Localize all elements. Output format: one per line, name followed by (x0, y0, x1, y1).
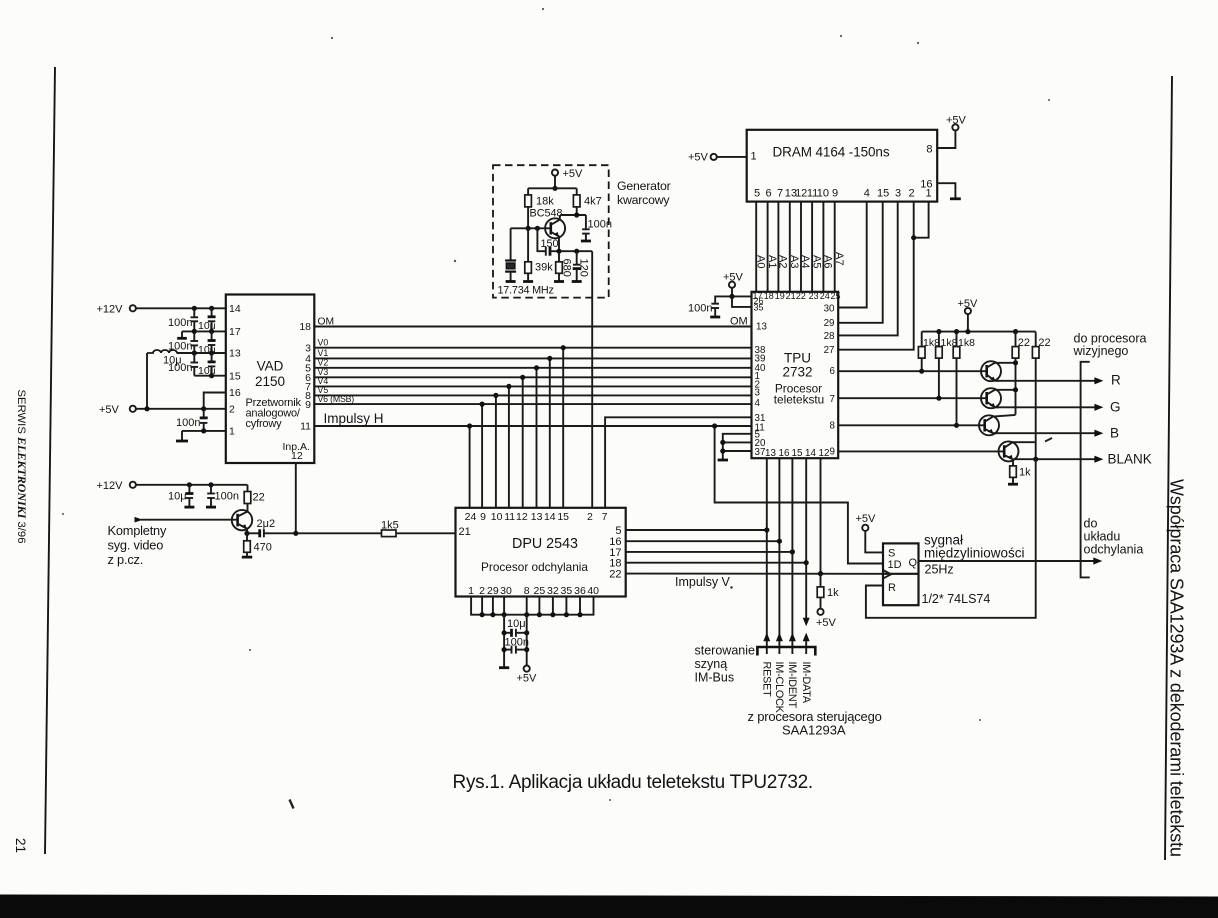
wire VAD pin15 (194, 375, 226, 377)
svg-text:24: 24 (820, 291, 830, 301)
svg-text:DPU 2543: DPU 2543 (512, 536, 578, 552)
resistor R12 22 (1032, 332, 1039, 460)
svg-text:18k: 18k (536, 196, 554, 208)
svg-text:35: 35 (561, 585, 573, 597)
svg-text:5: 5 (754, 188, 760, 200)
wire emitter to C10 (247, 532, 259, 534)
svg-text:3: 3 (895, 188, 901, 200)
svg-text:9: 9 (830, 447, 835, 458)
node dot (804, 560, 809, 565)
wire collector node (560, 214, 586, 216)
svg-text:2: 2 (908, 188, 914, 200)
node dot (493, 393, 498, 398)
+5V terminal T11 (862, 525, 868, 531)
node dot (1013, 360, 1018, 365)
svg-text:15: 15 (229, 371, 241, 383)
wire IM-DATA lower (805, 641, 807, 655)
IM-Bus bracket (757, 647, 815, 656)
wire +5V to DRAM pin1 (717, 156, 747, 158)
svg-text:2150: 2150 (255, 374, 285, 389)
svg-text:TPU: TPU (784, 351, 811, 366)
wire address A2 (777, 202, 779, 292)
left page rule (45, 67, 55, 854)
svg-text:B: B (1110, 426, 1119, 441)
output group bracket (1081, 362, 1090, 578)
wire supply rail (528, 187, 577, 189)
svg-text:V0: V0 (318, 338, 329, 348)
wire V6 (314, 403, 751, 405)
svg-text:+5V: +5V (958, 298, 979, 310)
svg-text:22: 22 (1038, 337, 1050, 349)
+5V terminal T8 (965, 308, 971, 314)
svg-text:36: 36 (574, 585, 586, 597)
wire VAD pin16 to pin2 join (204, 393, 226, 409)
svg-text:syg. video: syg. video (108, 538, 164, 553)
wire base line (511, 227, 551, 229)
node dot (720, 448, 725, 453)
node dot (192, 329, 197, 334)
svg-text:100n: 100n (215, 491, 239, 503)
svg-text:6: 6 (765, 188, 771, 200)
wire R3 to DPU pin21 (396, 532, 456, 534)
svg-text:13: 13 (756, 322, 767, 333)
wire DPU5 (626, 529, 767, 531)
svg-text:Rys.1. Aplikacja układu telete: Rys.1. Aplikacja układu teletekstu TPU27… (453, 772, 813, 793)
svg-text:6: 6 (830, 366, 836, 377)
node dot (911, 235, 916, 240)
svg-text:100n: 100n (176, 417, 200, 429)
svg-text:22: 22 (1018, 337, 1030, 349)
clock chevron (883, 570, 891, 579)
+5V terminal T6 (952, 124, 958, 130)
wire VAD pin1 (182, 430, 226, 432)
capacitor C8 10u (184, 485, 194, 507)
wire DPU10 riser (495, 395, 497, 507)
IC U4 DPU 2543 box (456, 508, 626, 597)
wire +5V down (554, 176, 556, 189)
svg-text:VAD: VAD (257, 359, 284, 374)
node dot (729, 294, 734, 299)
svg-text:11: 11 (300, 421, 311, 433)
svg-text:28: 28 (824, 331, 835, 342)
svg-text:do: do (1084, 517, 1098, 531)
svg-text:R: R (888, 582, 896, 594)
wire VAD pin13 (177, 352, 226, 354)
wire +5V to VAD pin2 (136, 408, 226, 410)
capacitor C7 100n (200, 409, 208, 431)
capacitor C13 120 (572, 251, 582, 281)
wire L1 to +5V rail riser (146, 353, 148, 409)
node dot (520, 375, 525, 380)
svg-text:IM-Bus: IM-Bus (695, 671, 735, 685)
wire DPU bottom pins to bus (471, 597, 593, 615)
wire DPU16 (626, 540, 780, 542)
node dot (1013, 329, 1018, 334)
svg-text:IM-IDENT: IM-IDENT (786, 662, 798, 709)
node dot (490, 612, 495, 617)
svg-text:A3: A3 (788, 255, 800, 268)
wire TPU6 to R base (838, 370, 987, 372)
svg-text:8: 8 (926, 144, 932, 156)
svg-text:15: 15 (877, 188, 889, 200)
wire V2 (314, 367, 751, 369)
svg-text:21: 21 (459, 526, 471, 538)
svg-text:7: 7 (602, 511, 608, 523)
svg-text:+5V: +5V (688, 152, 709, 164)
svg-text:100n: 100n (588, 219, 612, 231)
svg-text:15: 15 (557, 511, 569, 523)
wire DPU24 riser (469, 426, 471, 508)
resistor R10 1k8 (953, 332, 960, 426)
svg-text:22: 22 (253, 492, 265, 504)
bottom black bar (0, 895, 1218, 918)
wire +5V to S input (865, 531, 883, 553)
flip-flop divider (883, 573, 919, 575)
wire DRAM pin8 to +5V (937, 131, 955, 149)
svg-text:7: 7 (777, 188, 783, 200)
svg-text:100n: 100n (688, 303, 712, 315)
node dot (467, 423, 472, 428)
svg-text:680: 680 (561, 259, 573, 277)
svg-text:odchylania: odchylania (1084, 543, 1144, 557)
wire DPU11 riser (508, 386, 510, 507)
flip-flop U5 74LS74 box (883, 543, 919, 605)
arrowhead R (1094, 377, 1103, 384)
svg-text:14: 14 (544, 511, 556, 523)
wire G output (996, 406, 1097, 408)
svg-text:30: 30 (824, 304, 835, 315)
+5V terminal T5 (711, 154, 717, 160)
wire +5V rail rgb (922, 314, 1036, 332)
wire TPU7 to G base (838, 397, 987, 399)
stray mark (1045, 438, 1052, 442)
svg-text:12: 12 (291, 450, 303, 462)
inductor L1 10u (147, 350, 177, 353)
node dot (524, 630, 529, 635)
wire address A7 (834, 202, 836, 292)
svg-text:27: 27 (824, 345, 835, 356)
svg-text:1k8: 1k8 (958, 337, 975, 349)
node dot (192, 306, 197, 311)
transistor Q4 G (981, 388, 1016, 408)
resistor R9 1k8 (936, 332, 943, 399)
capacitor C6 10u (208, 353, 216, 376)
node dot (936, 329, 941, 334)
wire V4 (314, 385, 751, 387)
svg-text:kwarcowy: kwarcowy (617, 193, 670, 207)
wire DPU22 Impulsy V to flipflop clock (626, 573, 883, 575)
svg-text:100n: 100n (505, 637, 529, 649)
wire Impulsy H (314, 425, 751, 427)
svg-text:+5V: +5V (816, 617, 837, 629)
wire address A5 (811, 202, 813, 292)
wire TPU9 to BLANK base (838, 450, 1004, 452)
capacitor C12 150 feedback (537, 228, 592, 255)
node dot (187, 482, 192, 487)
svg-text:1D: 1D (888, 559, 902, 571)
svg-text:35: 35 (754, 303, 764, 313)
svg-text:Generator: Generator (617, 179, 671, 193)
node dot (480, 612, 485, 617)
node dot (574, 212, 579, 217)
svg-text:17.734 MHz: 17.734 MHz (498, 285, 554, 297)
svg-text:4: 4 (864, 188, 870, 200)
svg-text:16: 16 (229, 387, 241, 399)
svg-text:1: 1 (229, 426, 235, 438)
wire DPU15 riser (562, 348, 564, 508)
svg-text:DRAM 4164 -150ns: DRAM 4164 -150ns (773, 145, 890, 160)
wire IM-DATA upper (805, 458, 807, 618)
svg-text:4: 4 (755, 398, 761, 409)
svg-text:G: G (1110, 400, 1121, 415)
IC U3 TPU 2732 box (752, 292, 839, 458)
resistor R7 680 (554, 262, 564, 282)
wire B output (994, 432, 1097, 434)
wire +12V to VAD pin14 (136, 307, 226, 309)
resistor R5 4k7 (573, 188, 580, 215)
wire R loop to BLANK node (866, 459, 1036, 618)
svg-text:100n: 100n (168, 362, 192, 374)
svg-text:39k: 39k (535, 262, 553, 274)
svg-text:18: 18 (764, 291, 774, 301)
node dot (524, 647, 529, 652)
+5V terminal T9 (524, 666, 530, 672)
svg-text:wizyjnego: wizyjnego (1073, 344, 1129, 358)
svg-text:A7: A7 (833, 252, 845, 265)
node dot (561, 345, 566, 350)
node dot (556, 249, 561, 254)
svg-text:25: 25 (830, 291, 840, 301)
wire V0 (314, 347, 751, 349)
wire Q output (919, 560, 1097, 562)
svg-text:A6: A6 (822, 255, 834, 268)
svg-text:29: 29 (487, 585, 499, 597)
node dot (526, 226, 531, 231)
DPU top pin labels (465, 511, 608, 523)
svg-text:19: 19 (775, 291, 785, 301)
node dot (577, 612, 582, 617)
transistor Q6 BLANK (999, 441, 1036, 461)
svg-text:4k7: 4k7 (584, 196, 602, 208)
node dot (524, 612, 529, 617)
DRAM bottom pin labels (754, 188, 932, 200)
svg-text:37: 37 (755, 447, 766, 458)
svg-text:17: 17 (229, 326, 241, 338)
svg-text:1k5: 1k5 (381, 520, 399, 532)
arrowhead IM-DATA up (803, 633, 810, 642)
arrowhead RESET up (763, 633, 770, 642)
wire Impulsy H branch to flipflop 1D (715, 426, 883, 564)
+12V terminal T1 (130, 305, 136, 311)
node dot (764, 527, 769, 532)
svg-text:10: 10 (491, 511, 503, 523)
speckle noise (62, 8, 1050, 801)
transistor Q1 (232, 504, 252, 534)
svg-text:12: 12 (516, 511, 528, 523)
wire address A0 (755, 202, 757, 292)
svg-text:+5V: +5V (723, 272, 744, 284)
svg-text:12: 12 (795, 188, 807, 200)
node dot (244, 531, 249, 536)
node dot (552, 186, 557, 191)
wire +12V rail to R22 (136, 484, 248, 486)
svg-text:Współpraca SAA1293A z dekodera: Współpraca SAA1293A z dekoderami teletek… (1167, 479, 1187, 857)
svg-text:A4: A4 (799, 255, 811, 268)
svg-text:OM: OM (730, 316, 748, 328)
node dot (502, 630, 507, 635)
svg-text:2: 2 (229, 404, 235, 416)
node dot (574, 249, 579, 254)
svg-text:11: 11 (504, 511, 515, 523)
wire IM-CLOCK (778, 458, 780, 654)
wire decoupling drop right (526, 615, 528, 666)
svg-text:OM: OM (318, 317, 335, 328)
wire TPU8 to B base (838, 424, 985, 426)
svg-text:2732: 2732 (782, 365, 812, 380)
IC U1 VAD 2150 box (226, 295, 314, 464)
node dot (535, 226, 540, 231)
wire oscillator output to DPU pin2 (591, 251, 593, 508)
svg-text:Q: Q (909, 557, 918, 569)
wire DPU13 riser (536, 368, 538, 508)
wire BLANK output (1013, 458, 1097, 460)
capacitor C11 100n (581, 215, 591, 241)
ground GND6 (499, 666, 509, 669)
svg-text:Procesor odchylania: Procesor odchylania (481, 560, 588, 574)
svg-text:A1: A1 (766, 255, 778, 268)
wire C10 to R1k5 (264, 532, 382, 534)
node dot (537, 612, 542, 617)
node dot (720, 440, 725, 445)
node dot (550, 612, 555, 617)
right page rule (1165, 76, 1172, 860)
+5V terminal T2 (130, 406, 136, 412)
wire IM-Bus RESET (766, 458, 768, 654)
svg-text:30: 30 (500, 585, 512, 597)
node dot (534, 365, 539, 370)
svg-text:18: 18 (299, 321, 311, 333)
svg-text:1k: 1k (827, 587, 839, 599)
svg-text:+5V: +5V (856, 513, 877, 525)
svg-text:1: 1 (751, 151, 757, 163)
svg-text:Impulsy V: Impulsy V (675, 575, 731, 589)
input arrow (135, 517, 143, 523)
node dot (208, 482, 213, 487)
svg-text:12: 12 (819, 448, 830, 459)
node dot (192, 350, 197, 355)
svg-text:teletekstu: teletekstu (774, 393, 825, 407)
wire decoupling drop left (503, 615, 505, 668)
svg-text:1/2* 74LS74: 1/2* 74LS74 (922, 592, 991, 606)
svg-text:2μ2: 2μ2 (257, 518, 276, 530)
svg-text:R: R (1111, 373, 1121, 388)
resistor R1 22 (244, 485, 251, 504)
wire DPU17 (626, 551, 793, 553)
svg-text:24: 24 (465, 511, 477, 523)
wire video input to Q1 base (141, 519, 238, 521)
svg-text:15: 15 (792, 448, 803, 459)
TPU bottom pin labels (765, 448, 829, 459)
node dot (954, 423, 959, 428)
transistor Q2 BC548 (545, 215, 565, 262)
wire DRAM15 to TPU29 (838, 202, 883, 323)
arrowhead IM-CLOCK up (776, 633, 783, 642)
wire V3 (314, 376, 751, 378)
wire TPU pins 5 20 37 ground tie (723, 434, 752, 460)
node dot (209, 373, 214, 378)
DPU bottom pin labels (468, 585, 599, 597)
wire address A3 (789, 202, 791, 292)
svg-text:V6 (MSB): V6 (MSB) (318, 394, 355, 404)
resistor R11 22 (1012, 332, 1019, 415)
svg-text:13: 13 (531, 511, 543, 523)
node dot (293, 531, 298, 536)
node dot (1033, 457, 1038, 462)
ground GND4 (718, 459, 728, 462)
stray mark (290, 800, 294, 809)
svg-text:10μ: 10μ (168, 491, 187, 503)
capacitor C4 10u (208, 331, 216, 353)
svg-text:21: 21 (786, 291, 796, 301)
svg-text:IM-CLOCK: IM-CLOCK (773, 662, 785, 714)
node dot (919, 369, 924, 374)
wire DRAM4 to TPU30 (838, 202, 867, 308)
wire IM-IDENT (791, 458, 793, 654)
svg-text:2: 2 (479, 585, 485, 597)
+5V terminal T7 (729, 282, 735, 288)
capacitor C1 100n (191, 308, 199, 331)
wire DPU9 riser (481, 404, 483, 508)
svg-text:A0: A0 (754, 255, 766, 268)
node dot (144, 406, 149, 411)
arrowhead G (1094, 404, 1103, 411)
node dot (506, 384, 511, 389)
node dot (201, 406, 206, 411)
transistor Q3 R (981, 361, 1016, 381)
svg-text:międzyliniowości: międzyliniowości (924, 546, 1025, 561)
svg-text:22: 22 (609, 569, 621, 581)
wire DRAM1 bottom join (914, 202, 929, 238)
svg-text:SERWIS ELEKTRONIKI 3/96: SERWIS ELEKTRONIKI 3/96 (15, 390, 29, 544)
node dot (547, 356, 552, 361)
node dot (965, 329, 970, 334)
wire TPU12 pull-up (820, 458, 822, 573)
wire R output (996, 380, 1097, 382)
wire OM line VAD18 to TPU13 (314, 326, 751, 328)
wire DPU18 (626, 562, 807, 564)
node dot (790, 549, 795, 554)
TPU top pin labels (752, 291, 840, 301)
svg-text:+12V: +12V (97, 480, 124, 492)
svg-text:2: 2 (587, 511, 593, 523)
wire DRAM pin16 to ground (937, 183, 955, 198)
svg-text:150: 150 (541, 238, 559, 250)
svg-text:RESET: RESET (761, 662, 773, 698)
capacitor C16 100n (504, 646, 527, 654)
resistor R6 39k (523, 228, 533, 281)
svg-text:sterowanie: sterowanie (695, 644, 755, 658)
svg-text:5: 5 (615, 525, 621, 537)
wire DPU7 to TPU31 (605, 417, 751, 508)
svg-text:25Hz: 25Hz (925, 563, 954, 577)
svg-text:A2: A2 (777, 255, 789, 268)
svg-text:10: 10 (817, 188, 829, 200)
svg-text:+5V: +5V (99, 404, 120, 416)
svg-text:22: 22 (796, 291, 806, 301)
arrowhead IM-IDENT up (789, 633, 796, 642)
capacitor C14 100n (710, 296, 732, 317)
capacitor C9 100n (206, 485, 216, 507)
